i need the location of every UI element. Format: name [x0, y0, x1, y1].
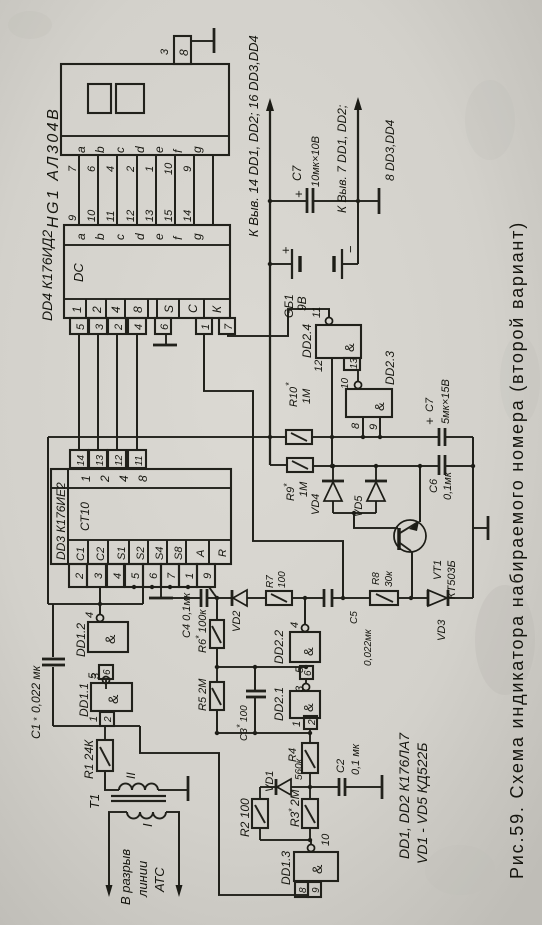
svg-text:VD4: VD4 [310, 494, 322, 515]
svg-text:3: 3 [93, 572, 105, 579]
resistor R5 2М [197, 667, 224, 733]
svg-text:4: 4 [105, 166, 117, 172]
svg-text:b: b [93, 146, 107, 153]
svg-text:DD1.1: DD1.1 [77, 683, 91, 717]
wire T1 winding II to ground [158, 789, 187, 791]
DD2.2 input pin box 6 pin 5 [294, 666, 314, 683]
svg-text:8: 8 [136, 475, 150, 482]
DD2.4 input pin box 13 [344, 357, 360, 370]
svg-text:10: 10 [163, 162, 175, 175]
IC DD3 К176ИЕ2 counter [51, 469, 231, 564]
svg-text:К Выв. 14 DD1, DD2; 16 DD3,DD4: К Выв. 14 DD1, DD2; 16 DD3,DD4 [246, 35, 261, 237]
svg-text:5мк×15В: 5мк×15В [440, 379, 452, 424]
svg-text:1М: 1М [298, 481, 310, 497]
svg-text:2: 2 [113, 324, 125, 331]
svg-text:6: 6 [148, 572, 160, 579]
svg-text:1: 1 [88, 716, 100, 722]
wire b [97, 155, 99, 225]
bottom rail [471, 437, 475, 598]
svg-text:1М: 1М [301, 388, 313, 404]
svg-text:7: 7 [166, 572, 178, 579]
svg-text:DD3 К176ИЕ2: DD3 К176ИЕ2 [54, 482, 68, 560]
battery GB1 9В [270, 201, 358, 318]
svg-text:R5 2М: R5 2М [197, 678, 209, 711]
diode VD3 [428, 590, 473, 641]
svg-text:S2: S2 [135, 547, 147, 560]
gate DD1.2 [74, 612, 128, 657]
svg-text:2: 2 [98, 475, 112, 483]
svg-text:С1: С1 [75, 547, 87, 561]
capacitor C2 0,1мк to ground [310, 743, 382, 799]
svg-text:9: 9 [67, 215, 79, 221]
svg-text:8 DD3,DD4: 8 DD3,DD4 [383, 119, 397, 181]
svg-text:DD1.2: DD1.2 [74, 623, 88, 657]
svg-text:Рис.59. Схема индикатора набир: Рис.59. Схема индикатора набираемого ном… [507, 221, 527, 879]
svg-text:DD1.3: DD1.3 [279, 851, 293, 885]
svg-text:0,1 мк: 0,1 мк [350, 743, 362, 775]
svg-text:0,1мк: 0,1мк [442, 471, 454, 500]
main timing chain vertical [217, 596, 413, 600]
svg-text:3: 3 [294, 685, 306, 692]
svg-text:a: a [74, 233, 88, 240]
DD3 output pin boxes 14 13 12 11 [70, 450, 146, 468]
svg-text:GБ1: GБ1 [282, 294, 296, 318]
resistor R10* 1М [284, 382, 438, 444]
gate DD2.2 [272, 598, 320, 664]
svg-text:R6: R6 [197, 638, 209, 653]
resistor R1 24К [82, 726, 113, 779]
capacitor C4 0,1мк (reset to ground) [173, 589, 217, 638]
svg-text:0,022мк: 0,022мк [363, 628, 374, 666]
svg-text:7: 7 [223, 323, 235, 330]
svg-text:13: 13 [95, 454, 106, 466]
minus rail arrow [335, 97, 397, 213]
svg-text:АТС: АТС [152, 867, 167, 893]
svg-text:СТ10: СТ10 [78, 502, 92, 531]
DD4 pin K box 7, wire to DD2.4 output [219, 309, 329, 336]
gate DD1.3 [279, 833, 338, 885]
svg-text:К Выв. 7 DD1, DD2;: К Выв. 7 DD1, DD2; [335, 105, 349, 213]
svg-text:14: 14 [76, 454, 87, 466]
svg-text:100: 100 [277, 571, 288, 588]
svg-text:5: 5 [294, 666, 306, 673]
svg-text:e: e [152, 146, 166, 153]
svg-text:6: 6 [102, 669, 113, 675]
DD4 pin S box 6 and ground [153, 318, 177, 345]
DD1.1 input node wire [53, 725, 140, 727]
bus wire 4 [116, 334, 118, 450]
svg-text:*: * [235, 724, 245, 728]
svg-text:&: & [102, 634, 118, 644]
capacitor C7 5мк х 15В [422, 379, 473, 446]
svg-text:14: 14 [182, 210, 194, 222]
wire DD1.3 output to R2 R3 node [260, 828, 312, 844]
svg-text:1: 1 [79, 475, 93, 482]
transformer T1 [87, 772, 166, 827]
capacitor C7 10мк х 10В filter [270, 136, 358, 213]
type labels [396, 732, 430, 864]
svg-text:12: 12 [313, 360, 325, 372]
diode VD2 [231, 590, 266, 632]
svg-text:6: 6 [159, 323, 171, 330]
svg-text:15: 15 [163, 209, 175, 222]
svg-text:d: d [133, 146, 147, 153]
svg-text:I: I [140, 823, 155, 827]
svg-text:1: 1 [291, 721, 303, 727]
svg-text:2: 2 [125, 166, 137, 173]
ground bar T1 [187, 776, 190, 801]
wire g [193, 155, 195, 225]
svg-text:c: c [113, 234, 127, 240]
svg-text:R1 24К: R1 24К [82, 739, 96, 779]
gate DD1.1 [77, 672, 132, 717]
resistor R9* 1М [282, 458, 439, 501]
svg-text:3: 3 [94, 323, 106, 330]
svg-text:11: 11 [311, 307, 323, 318]
svg-text:2: 2 [307, 719, 318, 726]
svg-text:*: * [284, 382, 294, 386]
wire R1 to T1 [105, 771, 119, 790]
svg-text:&: & [372, 402, 387, 411]
column A wire from C1 link down [48, 435, 286, 439]
svg-text:8: 8 [177, 49, 191, 56]
svg-text:VT1: VT1 [432, 560, 444, 580]
net 733: R5 C3 DD2.1 R4 [215, 731, 312, 735]
svg-text:*: * [32, 717, 42, 721]
svg-text:100: 100 [239, 705, 250, 722]
svg-text:S8: S8 [173, 546, 185, 560]
svg-text:+: + [278, 246, 293, 254]
svg-text:R7: R7 [265, 575, 276, 588]
svg-text:R2 100: R2 100 [238, 798, 252, 837]
wire e [155, 155, 157, 225]
svg-text:12: 12 [114, 454, 125, 466]
svg-text:d: d [133, 233, 147, 240]
svg-text:С2: С2 [95, 547, 107, 561]
wire h [212, 155, 214, 225]
svg-text:VD5: VD5 [353, 495, 365, 517]
svg-text:10: 10 [86, 209, 98, 222]
wire DD2.4 pin 12 line [313, 358, 332, 466]
svg-text:100к: 100к [197, 609, 209, 633]
svg-text:4: 4 [112, 573, 124, 579]
wire R pin to node [209, 587, 214, 594]
bus wire 1 [78, 334, 80, 450]
wire loop input node to DD1.3 inputs [140, 726, 308, 895]
svg-text:&: & [301, 647, 316, 656]
svg-text:9: 9 [311, 887, 322, 893]
diode VD1 [260, 771, 308, 795]
svg-text:VD2: VD2 [231, 611, 243, 632]
svg-text:1: 1 [144, 166, 156, 172]
op IC DD4 К176ИД2 decoder [39, 225, 230, 321]
DD2.1 input pin box 2 pin 1 [291, 716, 318, 733]
svg-text:DD2.1: DD2.1 [272, 687, 286, 721]
resistor R3* 2М [287, 787, 318, 840]
svg-text:4: 4 [84, 612, 96, 618]
DD3 bottom pin boxes 2 3 4 5 6 7 1 9 [69, 564, 215, 587]
svg-text:&: & [342, 343, 357, 352]
wire link to DD2.4 column [47, 437, 49, 604]
svg-text:VD3: VD3 [436, 619, 448, 641]
svg-text:HG1 АЛ304В: HG1 АЛ304В [45, 107, 62, 228]
svg-text:DD4 К176ИД2: DD4 К176ИД2 [39, 230, 55, 321]
svg-text:R3: R3 [288, 811, 302, 827]
gate DD2.4 [300, 307, 361, 358]
svg-text:0,022 мк: 0,022 мк [29, 664, 43, 713]
bus wire 2 [97, 334, 99, 450]
svg-text:R8: R8 [371, 572, 382, 585]
resistor R4 560к [287, 733, 318, 787]
svg-text:13: 13 [349, 357, 360, 369]
svg-text:8: 8 [131, 306, 145, 313]
capacitor C5 0,022мк [324, 589, 374, 666]
display pin numbers 7 6 4 2 1 10 9 [67, 162, 194, 175]
svg-text:9В: 9В [295, 296, 309, 311]
svg-text:С4 0,1мк: С4 0,1мк [181, 592, 193, 638]
svg-text:2: 2 [90, 306, 104, 314]
svg-text:*: * [287, 808, 297, 812]
svg-text:S: S [162, 305, 176, 313]
diode VD5 [353, 466, 387, 517]
svg-text:4: 4 [117, 475, 131, 482]
wire display pin8 to rail [191, 40, 214, 42]
svg-text:С6: С6 [428, 478, 440, 493]
svg-text:DD1, DD2 К176ЛА7: DD1, DD2 К176ЛА7 [396, 732, 412, 859]
wire a [78, 155, 80, 225]
svg-text:g: g [190, 233, 204, 240]
svg-text:3: 3 [90, 672, 102, 679]
svg-text:13: 13 [144, 209, 156, 222]
svg-text:А: А [195, 550, 207, 558]
svg-text:КТ503Б: КТ503Б [446, 560, 458, 599]
svg-text:+: + [291, 190, 306, 198]
svg-text:e: e [152, 233, 166, 240]
svg-text:С5: С5 [349, 611, 360, 624]
gate DD1.2 inputs 5 6 [87, 665, 113, 689]
rail terminal bar at display [213, 28, 216, 53]
svg-text:2М: 2М [288, 789, 302, 807]
svg-text:С7: С7 [424, 397, 436, 412]
svg-text:3: 3 [159, 48, 171, 55]
svg-text:С2: С2 [335, 759, 347, 773]
svg-text:В разрыв: В разрыв [118, 849, 133, 905]
svg-text:DC: DC [71, 263, 86, 282]
svg-text:С1: С1 [29, 724, 43, 739]
svg-text:R: R [217, 549, 229, 557]
svg-text:c: c [113, 147, 127, 153]
capacitor C6 0,1мк [428, 455, 473, 500]
svg-text:&: & [301, 703, 316, 712]
gate DD2.3 [340, 351, 397, 417]
svg-text:*: * [194, 635, 204, 639]
svg-text:a: a [74, 146, 88, 153]
svg-text:VD1: VD1 [264, 771, 276, 792]
svg-text:30к: 30к [384, 570, 395, 587]
capacitor C1 0,022мк feedback [29, 604, 100, 739]
svg-text:S4: S4 [154, 547, 166, 560]
svg-text:&: & [105, 694, 121, 704]
svg-text:4: 4 [133, 324, 145, 330]
svg-text:Т1: Т1 [87, 794, 102, 809]
svg-text:5: 5 [130, 572, 142, 579]
DD1.1 input pin box 2 and pin 1 [88, 712, 114, 726]
svg-text:+: + [422, 417, 437, 425]
wire T1 winding I leads with arrows to ATC line [106, 812, 183, 905]
node R net [215, 596, 219, 600]
plus rail [246, 35, 274, 465]
DD4 pin C box 1, wire to C5 R8 node [196, 318, 345, 600]
svg-text:C: C [186, 304, 200, 313]
ground net S2 S4 S8 A [132, 585, 190, 597]
svg-text:линии: линии [135, 861, 150, 898]
display pin 8 (common), pin number 3 [159, 36, 191, 64]
net 667: R6 C3 to DD2.1 out [217, 665, 308, 669]
svg-text:9: 9 [202, 573, 214, 579]
svg-text:VD1 - VD5 КД522Б: VD1 - VD5 КД522Б [414, 743, 430, 864]
svg-text:g: g [190, 146, 204, 153]
svg-text:II: II [124, 772, 138, 779]
wire C2 pin to DD1.2 output [98, 587, 143, 614]
wire c [116, 155, 118, 225]
svg-text:1: 1 [70, 306, 84, 313]
svg-text:1: 1 [200, 324, 212, 330]
svg-text:560к: 560к [294, 757, 305, 780]
svg-text:10: 10 [340, 377, 351, 389]
svg-text:DD2.2: DD2.2 [272, 630, 286, 664]
svg-text:5: 5 [75, 323, 87, 330]
resistor R8 30к [370, 570, 428, 605]
svg-text:9: 9 [368, 424, 380, 430]
svg-text:12: 12 [125, 210, 137, 222]
svg-text:10мк×10В: 10мк×10В [310, 136, 322, 187]
capacitor C3* 100 [235, 667, 266, 741]
svg-text:7: 7 [67, 165, 79, 172]
wire f [174, 155, 176, 225]
svg-text:1: 1 [184, 573, 196, 579]
svg-text:R9: R9 [285, 487, 297, 501]
node X R3 R4 VD1 C2 [308, 785, 312, 789]
svg-text:11: 11 [134, 456, 145, 466]
svg-text:8: 8 [350, 422, 362, 429]
svg-text:10: 10 [320, 833, 332, 846]
svg-text:*: * [282, 483, 292, 487]
ground on bottom rail [473, 516, 488, 540]
svg-text:DD2.4: DD2.4 [300, 324, 314, 358]
svg-text:К: К [210, 305, 224, 313]
svg-text:R10: R10 [288, 386, 300, 407]
column B plus rail to R9 [270, 464, 287, 466]
svg-text:6: 6 [86, 165, 98, 172]
svg-text:2: 2 [103, 716, 114, 723]
DD4 input pin boxes 5 3 2 4 [70, 318, 146, 334]
minus rail terminal [358, 188, 379, 214]
display HG1 АЛ304В [45, 64, 229, 228]
svg-text:S1: S1 [116, 547, 128, 560]
svg-text:4: 4 [289, 622, 301, 628]
resistor R6* 100к [194, 598, 224, 669]
DD1.3 input pin boxes 8 9 [295, 882, 322, 897]
DD4 pin numbers 9 10 11 12 13 15 14 [67, 209, 194, 222]
svg-text:С7: С7 [290, 164, 304, 181]
transistor VT1 КТ503Б [354, 466, 458, 599]
diodes VD4 VD5 node to base [333, 511, 376, 515]
diode VD4 [310, 466, 344, 515]
svg-text:9: 9 [182, 166, 194, 172]
svg-text:&: & [309, 864, 325, 874]
bus wire 8 [136, 334, 138, 450]
svg-text:b: b [93, 233, 107, 240]
svg-text:2: 2 [74, 573, 86, 580]
svg-text:11: 11 [105, 211, 117, 222]
resistor R7 100 [265, 571, 323, 605]
resistor R2 100 [238, 787, 268, 837]
DD2.3 inputs 8 9 [350, 417, 380, 437]
svg-text:−: − [343, 245, 358, 253]
svg-text:DD2.3: DD2.3 [383, 351, 397, 385]
svg-text:4: 4 [109, 306, 123, 313]
gate DD2.1 [272, 684, 320, 722]
svg-text:С3: С3 [239, 728, 250, 741]
ground bar [149, 597, 173, 600]
wire d [136, 155, 138, 225]
